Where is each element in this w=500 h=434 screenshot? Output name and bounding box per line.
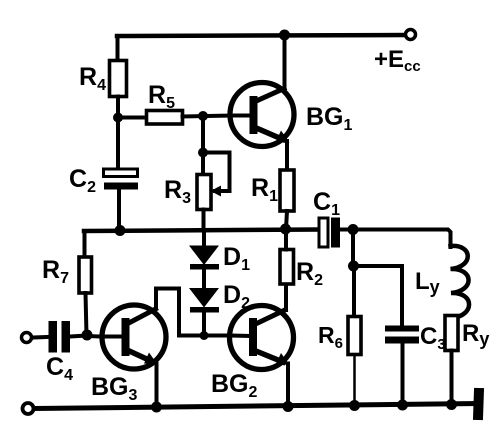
wire bottom ground rail <box>35 404 477 409</box>
label R4 <box>79 63 106 94</box>
resistor R5 <box>147 111 183 125</box>
label BG3 <box>91 373 138 404</box>
wire BG2 emitter to rail <box>286 364 290 407</box>
node collector/rail <box>279 30 290 41</box>
label BG1 <box>306 103 353 134</box>
wire BG3 collector up/over to BG2 base <box>156 289 231 336</box>
ground <box>473 388 484 420</box>
wire C2 bottom to bus <box>117 190 121 231</box>
label R2 <box>296 258 323 289</box>
svg-text:Ly: Ly <box>415 268 440 297</box>
capacitor C2 <box>104 169 139 190</box>
label C2 <box>69 165 96 196</box>
label C1 <box>313 188 340 219</box>
wire branch down <box>351 230 355 267</box>
terminal input <box>22 333 32 343</box>
svg-text:R5: R5 <box>148 81 175 112</box>
wire C3 bottom to rail <box>401 344 405 406</box>
svg-text:C4: C4 <box>46 353 73 384</box>
inductor Ly <box>451 246 470 318</box>
wire D2 cathode down <box>202 312 206 336</box>
wire BG2 collector to R2 <box>284 284 288 310</box>
svg-text:D1: D1 <box>223 243 250 274</box>
resistor R3 <box>197 175 211 210</box>
svg-text:BG3: BG3 <box>91 373 138 404</box>
node R4/R5 junction <box>113 113 123 123</box>
capacitor C1 <box>319 218 340 248</box>
R3 wiper arrowhead <box>211 186 222 197</box>
node branch C3/R6 <box>348 261 359 272</box>
wire left branch down <box>83 231 87 257</box>
node base/R3 branch <box>198 111 208 121</box>
wire R3 bottom to bus <box>202 210 206 231</box>
label Ry <box>462 320 489 349</box>
diode D2 <box>189 288 219 313</box>
node BG2 emitter/rail <box>283 401 294 412</box>
node D2/BG2 base <box>200 331 209 340</box>
label C3 <box>420 323 446 353</box>
svg-text:C1: C1 <box>313 188 340 219</box>
wire D1 to D2 <box>202 269 206 289</box>
svg-text:C3: C3 <box>420 323 446 353</box>
label R5 <box>148 81 175 112</box>
transistor BG3 <box>101 305 166 369</box>
svg-text:R7: R7 <box>42 256 69 287</box>
wire mid bus <box>84 230 319 232</box>
label +Ecc <box>374 46 421 75</box>
wire R5 left lead <box>118 116 147 120</box>
wire R3 branch vertical <box>201 116 205 175</box>
resistor R1 <box>280 170 294 211</box>
wire R4 bottom to C2 <box>116 97 120 170</box>
wire top supply rail <box>117 35 405 36</box>
node C2/bus <box>115 225 126 236</box>
wire Ry bottom to rail <box>450 351 454 405</box>
wire R4 top <box>116 36 120 61</box>
capacitor C4 <box>49 321 71 353</box>
wire BG3 emitter to ground rail <box>155 364 159 407</box>
wire R2 top to bus <box>284 229 288 250</box>
wire R6 top lead <box>352 266 356 317</box>
capacitor C3 <box>385 326 419 344</box>
terminal bottom left <box>23 403 34 414</box>
svg-text:C2: C2 <box>69 165 96 196</box>
label R7 <box>42 256 69 287</box>
wire D1 top lead <box>202 230 206 246</box>
svg-text:R3: R3 <box>164 176 191 207</box>
wire C4 to node <box>70 336 87 337</box>
label C4 <box>46 353 73 384</box>
wire BG1 collector to rail <box>283 35 287 89</box>
svg-text:BG1: BG1 <box>306 103 353 134</box>
wire R5 to BG1 base <box>183 116 232 117</box>
node Ry/rail <box>446 399 457 410</box>
transistor BG1 <box>230 83 294 147</box>
node C4/R7/base <box>82 330 93 341</box>
resistor R2 <box>280 250 294 285</box>
svg-text:R1: R1 <box>251 174 278 205</box>
diode D1 <box>189 246 219 270</box>
node BG3 emitter/rail <box>151 402 162 413</box>
svg-text:R6: R6 <box>318 322 343 352</box>
label BG2 <box>211 370 258 401</box>
svg-text:Ry: Ry <box>462 320 489 349</box>
resistor R7 <box>79 257 92 293</box>
wire to C3 top <box>354 266 403 326</box>
node R6/rail <box>349 400 360 411</box>
node R1/R2/bus <box>280 224 291 235</box>
label R1 <box>251 174 278 205</box>
wire node to BG3 base <box>87 334 101 339</box>
wire R1 bottom to bus <box>286 211 287 229</box>
terminal +Ecc <box>406 30 416 40</box>
svg-text:BG2: BG2 <box>211 370 258 401</box>
label R6 <box>318 322 343 352</box>
wire input terminal to C4 <box>33 335 48 340</box>
node C1/branch <box>348 224 359 235</box>
wire R7 bottom <box>86 293 87 336</box>
wire R6 bottom to rail <box>353 355 356 406</box>
resistor R4 <box>110 61 127 97</box>
wire C1 to coil corner <box>340 230 451 248</box>
node C3/rail <box>397 400 408 411</box>
transistor BG2 <box>230 306 294 370</box>
wire R3 wiper loop <box>203 153 230 192</box>
svg-text:R2: R2 <box>296 258 323 289</box>
svg-text:+Ecc: +Ecc <box>374 46 421 75</box>
svg-text:R4: R4 <box>79 63 106 94</box>
resistor Ry <box>445 316 458 351</box>
label Ly <box>415 268 440 297</box>
wire BG1 emitter to R1 <box>285 141 289 170</box>
label D1 <box>223 243 250 274</box>
label R3 <box>164 176 191 207</box>
label D2 <box>223 281 250 312</box>
resistor R6 <box>348 317 361 355</box>
node R3 top <box>198 148 208 158</box>
